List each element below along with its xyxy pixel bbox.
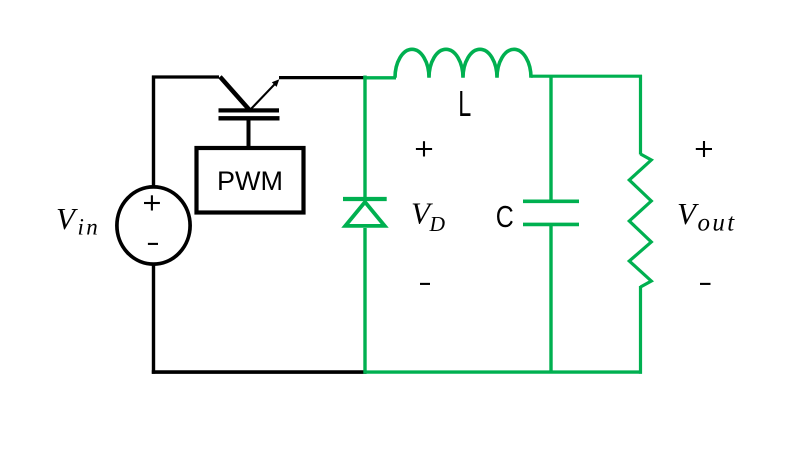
svg-text:PWM: PWM (217, 166, 283, 196)
resistor R_load zigzag (629, 154, 651, 287)
wire diode branch lower (green) (363, 228, 366, 374)
svg-text:C: C (496, 199, 514, 234)
wire right branch lower (green) (639, 286, 642, 374)
svg-text:out: out (698, 210, 737, 237)
bar 1 (219, 108, 280, 112)
svg-text:L: L (458, 83, 471, 124)
V_in minus sign (148, 243, 158, 245)
wire top middle horizontal (black) (279, 76, 366, 79)
wire left vertical lower (black) (152, 264, 155, 374)
PWM box (197, 148, 304, 213)
V_in plus sign (144, 195, 160, 210)
collector diagonal (220, 77, 250, 110)
diode D1 (343, 199, 387, 226)
wire capacitor branch upper (green) (549, 76, 552, 200)
wire diode branch upper (green) (363, 76, 366, 200)
gate stub (247, 120, 251, 147)
voltage source V_in circle (117, 187, 190, 264)
wire capacitor branch lower (green) (549, 226, 552, 372)
svg-text:in: in (78, 215, 101, 240)
svg-text:D: D (429, 212, 446, 236)
V_out minus sign (700, 283, 711, 285)
inductor L (395, 49, 531, 77)
V_out plus sign (696, 141, 712, 157)
transistor Q1 (switch) (219, 77, 280, 147)
emitter arrow line (250, 83, 277, 111)
svg-text:V: V (56, 201, 78, 236)
cathode bar (343, 197, 387, 201)
wire right branch upper (green) (639, 75, 642, 155)
svg-text:V: V (677, 196, 699, 231)
wire left vertical upper (black) (152, 76, 155, 189)
anode triangle (345, 202, 384, 226)
wire bottom horizontal black (152, 370, 367, 374)
bar 2 (gate) (219, 116, 280, 120)
capacitor C top plate (523, 200, 579, 204)
wire inductor to right corner (green) (531, 75, 642, 78)
wire top-left horizontal (black) (152, 75, 219, 78)
wire top green to inductor (363, 76, 396, 79)
diode minus sign (420, 283, 430, 285)
diode plus sign (416, 141, 432, 156)
capacitor C bottom plate (523, 223, 579, 227)
wire bottom horizontal green (366, 370, 642, 373)
arrow head (272, 79, 280, 87)
